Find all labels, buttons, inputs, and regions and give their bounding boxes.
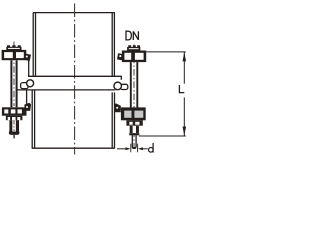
left sensor flange bbox=[2, 50, 27, 60]
right sensor flange bbox=[122, 51, 146, 63]
d label bbox=[149, 143, 154, 153]
pipe right wall outer bbox=[113, 13, 115, 149]
left sensor hex teeth bbox=[7, 45, 21, 47]
right probe tip bbox=[132, 147, 137, 149]
lower tap riser bbox=[26, 90, 28, 105]
L dim bottom arrow bbox=[183, 126, 187, 135]
L dim bottom extension bbox=[139, 135, 186, 137]
left thermowell step bbox=[6, 116, 23, 121]
left sensor hex body bbox=[6, 47, 21, 50]
left thermowell tube bbox=[9, 120, 19, 131]
pipe left wall outer bbox=[32, 13, 33, 149]
right sensor centerline bbox=[133, 45, 135, 148]
right sensor hex body bbox=[127, 47, 140, 51]
left sensor clamp nub bbox=[23, 53, 31, 61]
left sensor stem bbox=[11, 60, 16, 107]
d dim witness lines bbox=[131, 144, 138, 153]
right thermowell cap bar bbox=[129, 133, 139, 135]
lower tap line bbox=[17, 89, 115, 91]
left thermowell flange bbox=[2, 107, 27, 115]
L dim top arrow bbox=[183, 52, 187, 61]
L dim line lower bbox=[183, 97, 185, 135]
pipe top edge bbox=[33, 12, 115, 14]
left weld socket circle bbox=[27, 80, 34, 87]
pipe bottom edge bbox=[32, 147, 115, 149]
L dim line upper bbox=[183, 52, 185, 84]
left thermowell tube centerline bbox=[13, 121, 15, 132]
left thermowell clamp nub bbox=[24, 103, 31, 111]
pipe centerline bbox=[74, 4, 76, 155]
right sensor hex teeth bbox=[128, 45, 140, 47]
left thermowell tip bbox=[9, 132, 20, 135]
pipe right wall inner bbox=[111, 13, 113, 149]
right thermowell tube bbox=[130, 126, 139, 133]
left sensor centerline bbox=[13, 42, 15, 106]
right thermowell clamp nub bbox=[114, 104, 121, 113]
DN label bbox=[126, 31, 138, 40]
right thermowell step bbox=[126, 120, 142, 125]
left thermowell tip stub bbox=[13, 135, 15, 139]
pipe left wall inner bbox=[34, 13, 37, 149]
left weld socket tail bbox=[21, 83, 29, 89]
d dim right arrow bbox=[142, 148, 148, 150]
right probe lower bbox=[132, 135, 136, 147]
upper tap line bbox=[28, 76, 121, 80]
right weld socket circle bbox=[114, 82, 122, 90]
d dim left arrow bbox=[117, 148, 126, 150]
L dim top extension bbox=[146, 51, 186, 53]
upper tap riser bbox=[28, 60, 30, 77]
right thermowell flange bbox=[121, 107, 146, 120]
L label bbox=[179, 85, 184, 93]
right sensor stem bbox=[131, 62, 138, 108]
right weld socket tail bbox=[120, 84, 127, 89]
right sensor clamp nub bbox=[117, 53, 124, 60]
